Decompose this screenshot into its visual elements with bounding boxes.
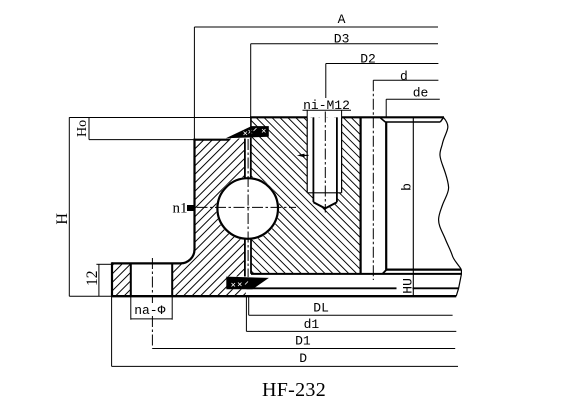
svg-text:b: b bbox=[400, 183, 415, 191]
dim Ho bbox=[88, 118, 90, 140]
break edge lower steps bbox=[456, 270, 461, 297]
label ni-M12 underline + ticks bbox=[303, 109, 352, 111]
svg-text:DL: DL bbox=[313, 301, 329, 316]
ball white punch bbox=[216, 177, 279, 240]
dim de bbox=[386, 98, 440, 100]
dim H bbox=[68, 117, 70, 296]
flange top bbox=[112, 262, 181, 264]
centerline ball horizontal bbox=[197, 206, 297, 208]
inner ring bottom / mounting plane bbox=[251, 273, 461, 275]
lower seal (black wedge) bbox=[226, 277, 269, 290]
outer ring (left) with flange, hatched bbox=[112, 263, 131, 296]
svg-text:D1: D1 bbox=[295, 334, 311, 349]
inner ring (right), hatched bbox=[251, 117, 361, 274]
leader arrow at tapped hole bbox=[299, 154, 309, 156]
dim D2 bbox=[326, 63, 439, 65]
svg-text:d: d bbox=[400, 69, 408, 84]
grease nipple n1 marker bbox=[187, 205, 195, 211]
svg-text:HU: HU bbox=[400, 278, 415, 294]
svg-text:ni-M12: ni-M12 bbox=[303, 98, 350, 113]
svg-text:H: H bbox=[54, 213, 71, 225]
dim d1 bbox=[246, 330, 456, 332]
centerline flange hole bbox=[151, 258, 153, 303]
svg-text:na-Φ: na-Φ bbox=[134, 303, 165, 318]
tapped hole ni-M12: major diameter bbox=[306, 117, 308, 193]
dim 12 (flange height) bbox=[98, 264, 100, 296]
fillet flange bbox=[181, 250, 195, 264]
svg-text:HF-232: HF-232 bbox=[262, 379, 326, 401]
companion piece left edge bbox=[385, 122, 387, 270]
break wavy line bbox=[439, 118, 462, 270]
svg-text:de: de bbox=[413, 85, 429, 100]
svg-text:A: A bbox=[338, 12, 346, 27]
tapped hole minor diameter + drill point bbox=[312, 117, 314, 202]
outer ring outer edge bbox=[193, 139, 195, 250]
centerline ball vertical bbox=[247, 139, 249, 277]
flange bolt hole walls bbox=[130, 263, 132, 296]
flange outer edge bbox=[111, 262, 113, 296]
svg-text:d1: d1 bbox=[304, 317, 320, 332]
outer ring top face bbox=[193, 139, 229, 141]
inner ring top face bbox=[250, 116, 307, 118]
dim D1 bbox=[152, 348, 455, 350]
raceway gap lower bbox=[244, 239, 246, 277]
svg-text:12: 12 bbox=[84, 271, 101, 287]
raceway gap upper bbox=[244, 139, 246, 179]
ball bbox=[217, 178, 278, 239]
svg-text:D2: D2 bbox=[360, 51, 376, 66]
inner ring right edge bbox=[360, 117, 362, 273]
support plate top bbox=[247, 287, 397, 289]
svg-text:Ho: Ho bbox=[75, 120, 90, 137]
bottom face bbox=[112, 295, 456, 297]
companion piece bottom bbox=[387, 269, 462, 271]
centerline right (bore d) bbox=[372, 80, 374, 280]
dim d bbox=[373, 79, 438, 81]
dim A bbox=[194, 26, 438, 28]
companion piece top chamfer lines bbox=[385, 121, 440, 123]
upper seal (black wedge) bbox=[226, 126, 269, 138]
svg-text:n1: n1 bbox=[173, 200, 188, 216]
dim DL bbox=[249, 314, 453, 316]
dim na-Phi bbox=[130, 296, 132, 320]
centerline M12 hole bbox=[324, 112, 326, 213]
dim D bbox=[112, 365, 458, 367]
dim b / HU shared line bbox=[412, 118, 414, 297]
label na-Phi bbox=[132, 303, 168, 316]
svg-text:D3: D3 bbox=[334, 32, 350, 47]
svg-text:D: D bbox=[299, 351, 307, 366]
dim D3 bbox=[251, 43, 438, 45]
